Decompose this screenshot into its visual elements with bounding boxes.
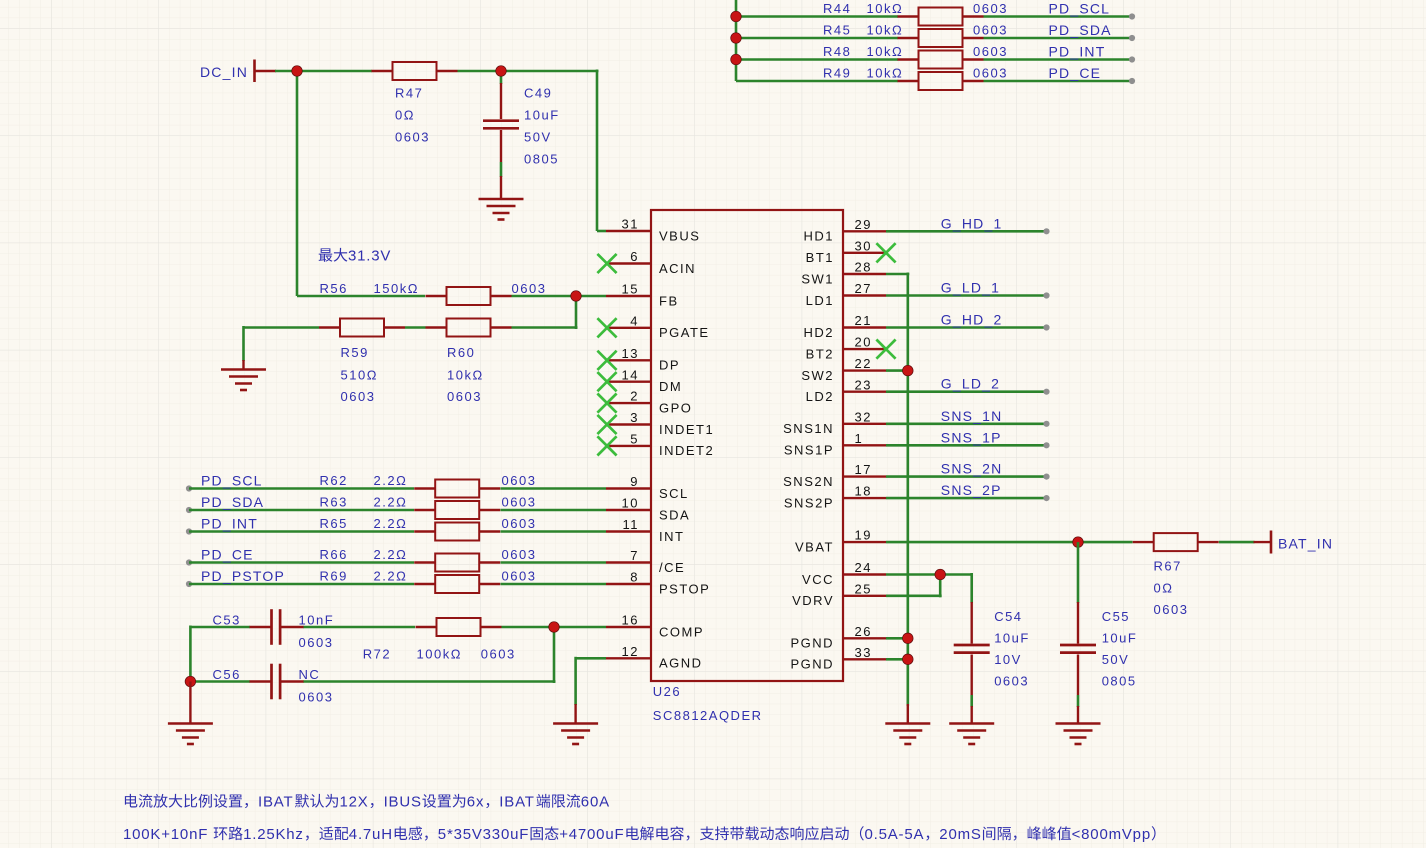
svg-text:VDRV: VDRV	[792, 593, 834, 608]
svg-text:0603: 0603	[481, 647, 516, 662]
svg-text:ACIN: ACIN	[659, 261, 696, 276]
svg-text:VBAT: VBAT	[795, 539, 834, 554]
svg-text:0603: 0603	[341, 389, 376, 404]
capacitor C55 10uF 50V 0805	[1060, 542, 1137, 723]
wire vertical feed to pull-up bank	[735, 0, 738, 81]
svg-text:PD_SDA: PD_SDA	[1049, 22, 1112, 38]
pin end dot PD_CE	[1129, 78, 1135, 84]
svg-text:PD_PSTOP: PD_PSTOP	[201, 568, 285, 584]
svg-text:SNS2N: SNS2N	[783, 474, 834, 489]
wire PD_SDA to pin	[501, 509, 607, 512]
wire COMP junction down to C56 row	[553, 626, 556, 684]
pin 33 PGND (right)	[790, 645, 886, 672]
wire PD_INT to pin	[501, 530, 607, 533]
svg-text:SNS_2N: SNS_2N	[941, 461, 1003, 477]
wire PGND 33 to bus	[886, 658, 908, 661]
pin 29 HD1 (right)	[803, 217, 886, 244]
svg-text:R47: R47	[395, 86, 423, 101]
svg-text:18: 18	[855, 484, 872, 499]
svg-text:19: 19	[855, 528, 872, 543]
pin end dot PD_INT	[1129, 56, 1135, 62]
svg-text:C56: C56	[213, 667, 241, 682]
svg-text:2: 2	[630, 389, 639, 404]
svg-text:PSTOP: PSTOP	[659, 581, 710, 596]
svg-text:10: 10	[622, 496, 639, 511]
pin end dot PD_SCL	[1129, 13, 1135, 19]
pin 13 DP (left)	[597, 346, 680, 373]
svg-text:10kΩ: 10kΩ	[867, 1, 904, 16]
wire PD_SCL row right segment	[984, 15, 1133, 18]
svg-text:0603: 0603	[502, 473, 537, 488]
svg-text:DP: DP	[659, 358, 680, 373]
svg-text:SDA: SDA	[659, 507, 690, 522]
wire PD_SCL to pin	[501, 487, 607, 490]
svg-text:31: 31	[622, 217, 639, 232]
wire net SNS_1P	[886, 429, 1050, 448]
wire net SNS_2P	[886, 482, 1050, 501]
wire VDRV up to VCC junction	[886, 573, 942, 597]
svg-text:PD_INT: PD_INT	[201, 516, 258, 532]
junction dot COMP	[549, 622, 560, 633]
svg-text:+4700uF: +4700uF	[559, 826, 624, 843]
wire PD_CE row left segment	[736, 80, 898, 83]
junction dot VCC	[935, 569, 946, 580]
pin 5 INDET2 (left)	[597, 432, 714, 459]
svg-text:9: 9	[630, 474, 639, 489]
svg-text:510Ω: 510Ω	[341, 368, 378, 383]
svg-text:GPO: GPO	[659, 400, 692, 415]
pin 1 SNS1P (right)	[784, 431, 886, 458]
svg-text:25: 25	[855, 581, 872, 596]
junction dot PGND 33	[903, 654, 914, 665]
svg-text:PD_CE: PD_CE	[1049, 65, 1102, 81]
svg-text:10uF: 10uF	[994, 630, 1030, 645]
svg-text:DC_IN: DC_IN	[200, 64, 248, 80]
ground below C56	[168, 682, 213, 745]
capacitor C53 10nF 0603	[213, 609, 335, 650]
wire PGND 26 to bus	[886, 637, 908, 640]
wire PD_SDA row left segment	[736, 37, 898, 40]
svg-text:10kΩ: 10kΩ	[867, 44, 904, 59]
svg-text:PD_CE: PD_CE	[201, 547, 254, 563]
wire net G_HD_2	[886, 312, 1050, 331]
svg-text:7: 7	[630, 548, 639, 563]
svg-text:SNS1P: SNS1P	[784, 443, 834, 458]
svg-text:60A: 60A	[581, 794, 610, 811]
svg-text:VCC: VCC	[802, 572, 834, 587]
svg-text:0Ω: 0Ω	[395, 108, 415, 123]
pin 21 HD2 (right)	[803, 313, 886, 340]
wire SW vertical bus	[906, 273, 909, 707]
svg-text:6x: 6x	[467, 794, 484, 811]
svg-text:C53: C53	[213, 613, 241, 628]
svg-text:50V: 50V	[524, 130, 552, 145]
resistor R49 10kΩ 0603	[823, 66, 1008, 91]
pin end dot PD_SDA	[1129, 35, 1135, 41]
svg-text:10kΩ: 10kΩ	[867, 23, 904, 38]
node PD_SCL label and wire	[186, 473, 414, 492]
svg-text:R60: R60	[447, 345, 475, 360]
svg-text:NC: NC	[299, 667, 321, 682]
svg-text:100kΩ: 100kΩ	[417, 647, 462, 662]
svg-text:30: 30	[855, 238, 872, 253]
pin 9 SCL (left)	[606, 474, 689, 501]
pin 7 /CE (left)	[606, 548, 685, 575]
pin 27 LD1 (right)	[806, 281, 886, 308]
svg-text:16: 16	[622, 613, 639, 628]
svg-text:INT: INT	[659, 529, 684, 544]
svg-text:G_LD_2: G_LD_2	[941, 376, 1000, 392]
pin 31 VBUS (left)	[606, 217, 700, 244]
resistor R69 2.2ohm 0603	[320, 569, 537, 594]
svg-text:R49: R49	[823, 66, 851, 81]
svg-text:U26: U26	[653, 684, 681, 699]
svg-text:20mS: 20mS	[939, 826, 981, 843]
svg-text:<800mVpp: <800mVpp	[1072, 826, 1151, 843]
pin 18 SNS2P (right)	[784, 484, 886, 511]
svg-text:2.2Ω: 2.2Ω	[374, 569, 408, 584]
resistor R47 0ohm 0603	[372, 62, 458, 145]
svg-text:R66: R66	[320, 547, 348, 562]
ground below R59	[221, 370, 266, 391]
resistor R65 2.2ohm 0603	[320, 516, 537, 541]
wire C49 junction to right corner	[501, 70, 606, 232]
svg-text:10uF: 10uF	[524, 108, 560, 123]
wire COMP junction to pin 16	[554, 626, 606, 629]
note current ratio	[125, 794, 610, 811]
wire net G_HD_1	[886, 215, 1050, 234]
junction dot VBAT/C55	[1073, 537, 1084, 548]
svg-text:0603: 0603	[395, 130, 430, 145]
svg-text:R69: R69	[320, 569, 348, 584]
capacitor C54 10uF 10V 0603	[954, 602, 1030, 724]
svg-text:33: 33	[855, 645, 872, 660]
op-amp U26 SC8812AQDER body	[651, 210, 843, 723]
svg-text:PD_SDA: PD_SDA	[201, 494, 264, 510]
svg-text:C54: C54	[994, 609, 1022, 624]
svg-text:150kΩ: 150kΩ	[374, 281, 419, 296]
resistor R59 510ohm 0603	[319, 319, 405, 405]
svg-text:22: 22	[855, 356, 872, 371]
wire DC_IN to junction	[275, 70, 298, 73]
ground AGND	[553, 724, 598, 745]
svg-text:15: 15	[622, 282, 639, 297]
wire PD_PSTOP to pin	[501, 583, 607, 586]
wire COMP row left	[190, 626, 250, 629]
svg-text:0603: 0603	[299, 635, 334, 650]
annotation max voltage	[319, 248, 391, 265]
junction dots on pull-up feed	[731, 11, 742, 65]
svg-text:28: 28	[855, 260, 872, 275]
svg-text:0603: 0603	[502, 547, 537, 562]
svg-text:100K+10nF: 100K+10nF	[123, 826, 208, 843]
pin 30 BT1 (right)	[806, 238, 896, 265]
svg-text:COMP: COMP	[659, 624, 704, 639]
wire DC_IN junction down to R56 row	[296, 70, 299, 297]
svg-text:0603: 0603	[502, 495, 537, 510]
svg-text:R45: R45	[823, 23, 851, 38]
resistor R72 100kohm 0603	[363, 618, 516, 662]
svg-text:0603: 0603	[973, 23, 1008, 38]
svg-text:G_HD_2: G_HD_2	[941, 312, 1003, 328]
svg-text:R67: R67	[1154, 559, 1182, 574]
ground PGND bus	[885, 704, 930, 744]
wire C56 to vertical	[304, 680, 556, 683]
pin 12 AGND (left)	[606, 644, 703, 671]
svg-text:SW2: SW2	[801, 368, 834, 383]
svg-text:31.3V: 31.3V	[348, 248, 391, 265]
svg-text:0Ω: 0Ω	[1154, 581, 1174, 596]
pin 22 SW2 (right)	[801, 356, 886, 383]
svg-text:R56: R56	[320, 281, 348, 296]
svg-text:12: 12	[622, 644, 639, 659]
svg-text:G_HD_1: G_HD_1	[941, 215, 1003, 231]
pin 3 INDET1 (left)	[597, 410, 714, 437]
wire net SNS_1N	[886, 408, 1050, 427]
wire PD_INT row right segment	[984, 58, 1133, 61]
wire PD_INT row left segment	[736, 58, 898, 61]
svg-text:0603: 0603	[1154, 602, 1189, 617]
wire junction to R67	[1078, 541, 1133, 544]
svg-text:21: 21	[855, 313, 872, 328]
svg-text:11: 11	[623, 517, 640, 532]
resistor R48 10kΩ 0603	[823, 44, 1008, 69]
svg-text:2.2Ω: 2.2Ω	[374, 516, 408, 531]
svg-text:IBAT: IBAT	[499, 794, 534, 811]
svg-text:HD1: HD1	[803, 229, 834, 244]
svg-text:2.2Ω: 2.2Ω	[374, 473, 408, 488]
svg-text:6: 6	[630, 249, 639, 264]
resistor R67 0ohm 0603	[1133, 533, 1219, 617]
wire R67 to BAT_IN port	[1219, 541, 1255, 544]
svg-text:0603: 0603	[973, 44, 1008, 59]
svg-text:0603: 0603	[447, 389, 482, 404]
wire VCC junction to C54 corner	[940, 573, 972, 603]
wire VCC to junction	[886, 573, 942, 576]
svg-text:SNS1N: SNS1N	[783, 421, 834, 436]
resistor R56 150kohm 0603	[320, 281, 547, 305]
svg-text:R63: R63	[320, 495, 348, 510]
svg-text:0603: 0603	[502, 569, 537, 584]
svg-text:/CE: /CE	[659, 560, 685, 575]
pin 24 VCC (right)	[802, 560, 886, 587]
resistor R45 10kΩ 0603	[823, 23, 1008, 48]
svg-text:INDET1: INDET1	[659, 422, 714, 437]
wire R56 to FB junction	[512, 295, 578, 298]
svg-text:4.7uH: 4.7uH	[349, 826, 393, 843]
svg-text:0603: 0603	[973, 66, 1008, 81]
svg-text:SNS_2P: SNS_2P	[941, 482, 1002, 498]
svg-text:PGND: PGND	[790, 657, 834, 672]
wire R72 to COMP junction	[502, 626, 556, 629]
svg-text:G_LD_1: G_LD_1	[941, 280, 1000, 296]
svg-text:SNS_1N: SNS_1N	[941, 408, 1003, 424]
resistor R66 2.2ohm 0603	[320, 547, 537, 572]
svg-text:BT2: BT2	[806, 346, 834, 361]
svg-text:4: 4	[630, 313, 639, 328]
pin 25 VDRV (right)	[792, 581, 886, 608]
svg-text:50V: 50V	[1102, 652, 1130, 667]
junction dot C56 left	[185, 676, 196, 687]
svg-text:10V: 10V	[994, 652, 1022, 667]
pin 8 PSTOP (left)	[606, 570, 710, 597]
wire C53 to R72	[304, 626, 416, 629]
svg-text:SC8812AQDER: SC8812AQDER	[653, 708, 763, 723]
junction dot PGND 26	[903, 633, 914, 644]
node PD_SCL label	[1049, 1, 1111, 17]
svg-text:0603: 0603	[299, 690, 334, 705]
svg-text:R44: R44	[823, 1, 851, 16]
svg-text:29: 29	[855, 217, 872, 232]
svg-text:14: 14	[622, 367, 639, 382]
wire divider down to ground	[242, 326, 245, 370]
pin 6 ACIN (left)	[597, 249, 696, 276]
node PD_SDA label and wire	[186, 494, 414, 513]
pin 4 PGATE (left)	[597, 313, 709, 340]
svg-text:5*35V330uF: 5*35V330uF	[438, 826, 529, 843]
svg-text:5: 5	[630, 432, 639, 447]
svg-text:VBUS: VBUS	[659, 228, 700, 243]
svg-text:10kΩ: 10kΩ	[867, 66, 904, 81]
svg-text:0603: 0603	[994, 673, 1029, 688]
svg-text:FB: FB	[659, 293, 679, 308]
svg-text:BAT_IN: BAT_IN	[1278, 536, 1333, 552]
node PD_CE label and wire	[186, 547, 414, 566]
resistor R62 2.2ohm 0603	[320, 473, 537, 498]
ground below C49	[479, 199, 524, 220]
svg-text:26: 26	[855, 624, 872, 639]
svg-text:0805: 0805	[1102, 673, 1137, 688]
svg-text:IBAT: IBAT	[258, 794, 293, 811]
pin 2 GPO (left)	[597, 389, 692, 416]
svg-text:C55: C55	[1102, 609, 1130, 624]
wire SW2 to bus	[886, 369, 908, 372]
svg-text:SNS2P: SNS2P	[784, 495, 834, 510]
pin 17 SNS2N (right)	[783, 462, 886, 489]
svg-text:R59: R59	[341, 345, 369, 360]
svg-text:2.2Ω: 2.2Ω	[374, 495, 408, 510]
svg-text:32: 32	[855, 409, 872, 424]
svg-text:C49: C49	[524, 86, 552, 101]
svg-text:R48: R48	[823, 44, 851, 59]
svg-text:8: 8	[630, 570, 639, 585]
pin 16 COMP (left)	[606, 613, 704, 640]
node PD_INT label and wire	[186, 516, 414, 535]
ground C55	[1056, 724, 1101, 745]
junction dot at C49 tap	[496, 66, 507, 77]
svg-text:INDET2: INDET2	[659, 443, 714, 458]
svg-text:R72: R72	[363, 647, 391, 662]
svg-text:HD2: HD2	[803, 325, 834, 340]
wire SW1 to vertical bus	[886, 273, 909, 276]
svg-text:PD_SCL: PD_SCL	[201, 473, 263, 489]
node PD_INT label	[1049, 44, 1106, 60]
svg-text:LD2: LD2	[806, 389, 834, 404]
pin 11 INT (left)	[606, 517, 684, 544]
wire net G_LD_2	[886, 376, 1050, 395]
svg-text:3: 3	[630, 410, 639, 425]
pin 32 SNS1N (right)	[783, 409, 886, 436]
svg-text:R62: R62	[320, 473, 348, 488]
pin 26 PGND (right)	[790, 624, 886, 651]
svg-text:13: 13	[622, 346, 639, 361]
wire AGND pin down	[576, 657, 606, 724]
svg-text:17: 17	[855, 462, 872, 477]
port DC_IN	[200, 60, 276, 83]
svg-text:12X: 12X	[340, 794, 369, 811]
svg-text:20: 20	[855, 335, 872, 350]
svg-text:0805: 0805	[524, 152, 559, 167]
svg-text:1.25Khz: 1.25Khz	[243, 826, 304, 843]
wire FB junction to pin 15	[576, 295, 606, 298]
pin 28 SW1 (right)	[801, 260, 886, 287]
svg-text:PGATE: PGATE	[659, 325, 710, 340]
pin 23 LD2 (right)	[806, 377, 886, 404]
wire net G_LD_1	[886, 280, 1050, 299]
pin 19 VBAT (right)	[795, 528, 886, 555]
svg-text:0603: 0603	[973, 1, 1008, 16]
svg-text:PGND: PGND	[790, 636, 834, 651]
wire junction to R47	[297, 70, 372, 73]
capacitor C49 10uF 50V 0805	[483, 71, 560, 199]
note loop compensation	[123, 826, 1156, 843]
ground C54	[949, 724, 994, 745]
svg-text:10kΩ: 10kΩ	[447, 368, 484, 383]
svg-text:23: 23	[855, 377, 872, 392]
junction dot FB	[571, 291, 582, 302]
svg-text:R65: R65	[320, 516, 348, 531]
wire R47 to C49 junction	[458, 70, 502, 73]
wire PD_SCL row left segment	[736, 15, 898, 18]
wire PD_CE row right segment	[984, 80, 1133, 83]
svg-text:10uF: 10uF	[1102, 630, 1138, 645]
svg-text:0603: 0603	[512, 281, 547, 296]
port BAT_IN	[1254, 531, 1334, 554]
wire net SNS_2N	[886, 461, 1050, 480]
resistor R60 10kohm 0603	[426, 319, 512, 405]
svg-text:DM: DM	[659, 379, 682, 394]
junction dot DC_IN	[292, 66, 303, 77]
pin 15 FB (left)	[606, 282, 679, 309]
svg-text:24: 24	[855, 560, 872, 575]
pin 20 BT2 (right)	[806, 335, 896, 362]
svg-text:0.5A-5A: 0.5A-5A	[865, 826, 925, 843]
resistor R63 2.2ohm 0603	[320, 495, 537, 520]
pin 14 DM (left)	[597, 367, 682, 394]
pin 10 SDA (left)	[606, 496, 690, 523]
svg-text:AGND: AGND	[659, 656, 703, 671]
svg-text:LD1: LD1	[806, 293, 834, 308]
wire corner to R56	[297, 295, 425, 298]
wire C53 branch down	[189, 626, 192, 684]
junction dot SW2	[903, 365, 914, 376]
svg-text:0603: 0603	[502, 516, 537, 531]
node PD_PSTOP label and wire	[186, 568, 414, 587]
wire divider row left segment	[244, 326, 426, 329]
svg-text:SNS_1P: SNS_1P	[941, 429, 1002, 445]
svg-text:SW1: SW1	[801, 271, 834, 286]
wire PD_CE to pin	[501, 561, 607, 564]
wire VBAT to junction	[886, 541, 1078, 544]
node PD_SDA label	[1049, 22, 1112, 38]
svg-text:PD_INT: PD_INT	[1049, 44, 1106, 60]
wire PD_SDA row right segment	[984, 37, 1133, 40]
wire FB junction down to divider row	[512, 295, 578, 330]
svg-text:27: 27	[855, 281, 872, 296]
svg-text:2.2Ω: 2.2Ω	[374, 547, 408, 562]
svg-text:IBUS: IBUS	[384, 794, 422, 811]
resistor R44 10kΩ 0603	[823, 1, 1008, 26]
